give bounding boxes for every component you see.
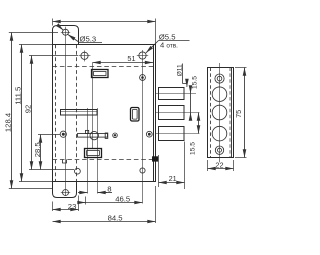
svg-text:15.5: 15.5 (190, 142, 197, 155)
svg-text:8: 8 (107, 184, 111, 193)
svg-text:92: 92 (23, 105, 32, 114)
svg-text:128.4: 128.4 (3, 112, 12, 132)
svg-text:75: 75 (234, 110, 243, 118)
svg-text:22: 22 (215, 160, 223, 169)
svg-text:111.5: 111.5 (14, 87, 23, 105)
svg-text:23: 23 (68, 202, 77, 211)
svg-text:51: 51 (127, 54, 135, 63)
svg-text:15.5: 15.5 (191, 76, 198, 89)
svg-text:4 отв.: 4 отв. (160, 41, 178, 50)
svg-text:28.5: 28.5 (33, 142, 42, 157)
svg-text:84.5: 84.5 (108, 214, 123, 223)
svg-text:Ø5.3: Ø5.3 (80, 34, 97, 43)
svg-text:46.5: 46.5 (115, 194, 130, 203)
svg-text:Ø11: Ø11 (177, 64, 184, 76)
svg-text:21: 21 (169, 174, 177, 183)
